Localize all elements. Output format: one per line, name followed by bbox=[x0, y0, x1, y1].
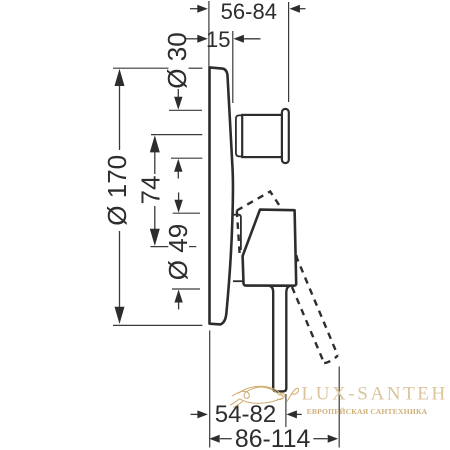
svg-text:86-114: 86-114 bbox=[235, 426, 311, 450]
spout cylinder bbox=[242, 115, 282, 157]
svg-text:74: 74 bbox=[136, 176, 166, 205]
svg-text:LUX-SANTEH: LUX-SANTEH bbox=[302, 384, 448, 405]
extension line spout tip bbox=[288, 2, 290, 102]
extension line plate front (15) bbox=[232, 31, 234, 103]
svg-text:56-84: 56-84 bbox=[221, 0, 277, 24]
extension line wall face top bbox=[208, 1, 210, 67]
svg-text:15: 15 bbox=[206, 27, 230, 52]
extension line solid lever (54-82) bbox=[285, 394, 287, 427]
extension line plate top (Ø170) bbox=[113, 67, 169, 69]
dashed lever end cap bbox=[324, 356, 338, 364]
spout collar bbox=[236, 115, 242, 156]
extension line spout bottom (Ø30) bbox=[171, 157, 202, 159]
svg-text:Ø 49: Ø 49 bbox=[163, 224, 193, 280]
handle body bbox=[243, 210, 297, 286]
watermark bbox=[230, 384, 448, 416]
svg-text:ЕВРОПЕЙСКАЯ САНТЕХНИКА: ЕВРОПЕЙСКАЯ САНТЕХНИКА bbox=[307, 407, 428, 416]
dimension Ø30 bbox=[162, 32, 192, 178]
extension line spout top (Ø30) bbox=[169, 109, 202, 111]
bird bbox=[230, 386, 298, 407]
dashed handle outline (open position) top and right edge bbox=[237, 192, 338, 356]
dimension Ø49 bbox=[163, 193, 193, 310]
svg-text:Ø 170: Ø 170 bbox=[102, 155, 132, 226]
extension line wall face bottom bbox=[209, 331, 211, 448]
extension line handle bottom (Ø49) bbox=[172, 288, 200, 290]
extension line handle top (Ø49) bbox=[173, 212, 200, 214]
extension line spout axis (74) bbox=[151, 134, 202, 136]
extension line handle axis (74) bbox=[151, 246, 169, 248]
dimension 56-84 bbox=[190, 0, 306, 24]
lever bar bbox=[269, 286, 290, 392]
spout flange bbox=[282, 109, 289, 163]
handle collar bbox=[233, 215, 243, 282]
dimension 86-114 bbox=[209, 426, 338, 450]
extension line plate bottom (Ø170) bbox=[113, 324, 202, 326]
svg-text:Ø 30: Ø 30 bbox=[162, 32, 192, 88]
dimension 15 bbox=[185, 27, 261, 52]
dashed lever lower edge bbox=[292, 287, 324, 363]
dashed handle left edge bbox=[237, 211, 240, 257]
dimension 74 bbox=[136, 135, 166, 246]
svg-text:54-82: 54-82 bbox=[215, 401, 276, 428]
extension line dashed lever end bbox=[338, 367, 340, 448]
dimension Ø170 bbox=[102, 69, 132, 324]
escutcheon plate (side view) bbox=[210, 67, 234, 324]
dimension 54-82 bbox=[191, 401, 302, 428]
